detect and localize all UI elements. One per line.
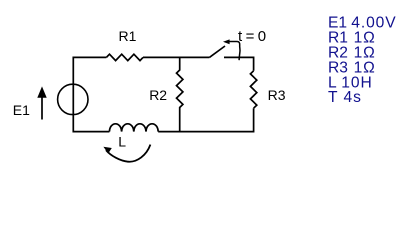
svg-text:T: T xyxy=(328,89,338,106)
wire top middle xyxy=(143,56,209,58)
wire left loop (bottom-left, left rail, top-left) xyxy=(73,57,109,131)
inductor arrow head xyxy=(103,147,111,154)
svg-text:R1: R1 xyxy=(119,28,137,44)
wire top right xyxy=(224,57,254,70)
resistor R1 xyxy=(106,54,143,60)
source current arrow head xyxy=(37,86,46,97)
resistor R2 xyxy=(177,57,183,131)
svg-text:R2: R2 xyxy=(149,87,167,103)
switch S (blade) xyxy=(209,46,225,57)
resistor R3 xyxy=(250,71,256,108)
svg-text:t=0: t=0 xyxy=(238,28,269,45)
svg-text:L: L xyxy=(118,133,126,149)
switch arrow head xyxy=(223,39,230,44)
svg-text:4s: 4s xyxy=(344,89,362,106)
voltage source E1 xyxy=(58,84,88,114)
source current arrow shaft xyxy=(41,96,43,120)
svg-text:E1: E1 xyxy=(13,102,30,118)
inductor L xyxy=(109,124,158,132)
switch action arrow curve xyxy=(237,42,240,61)
inductor direction arrow arc xyxy=(106,145,150,162)
switch arrow shaft xyxy=(229,41,237,43)
wire right rail bottom xyxy=(158,108,253,131)
svg-text:R3: R3 xyxy=(268,87,286,103)
